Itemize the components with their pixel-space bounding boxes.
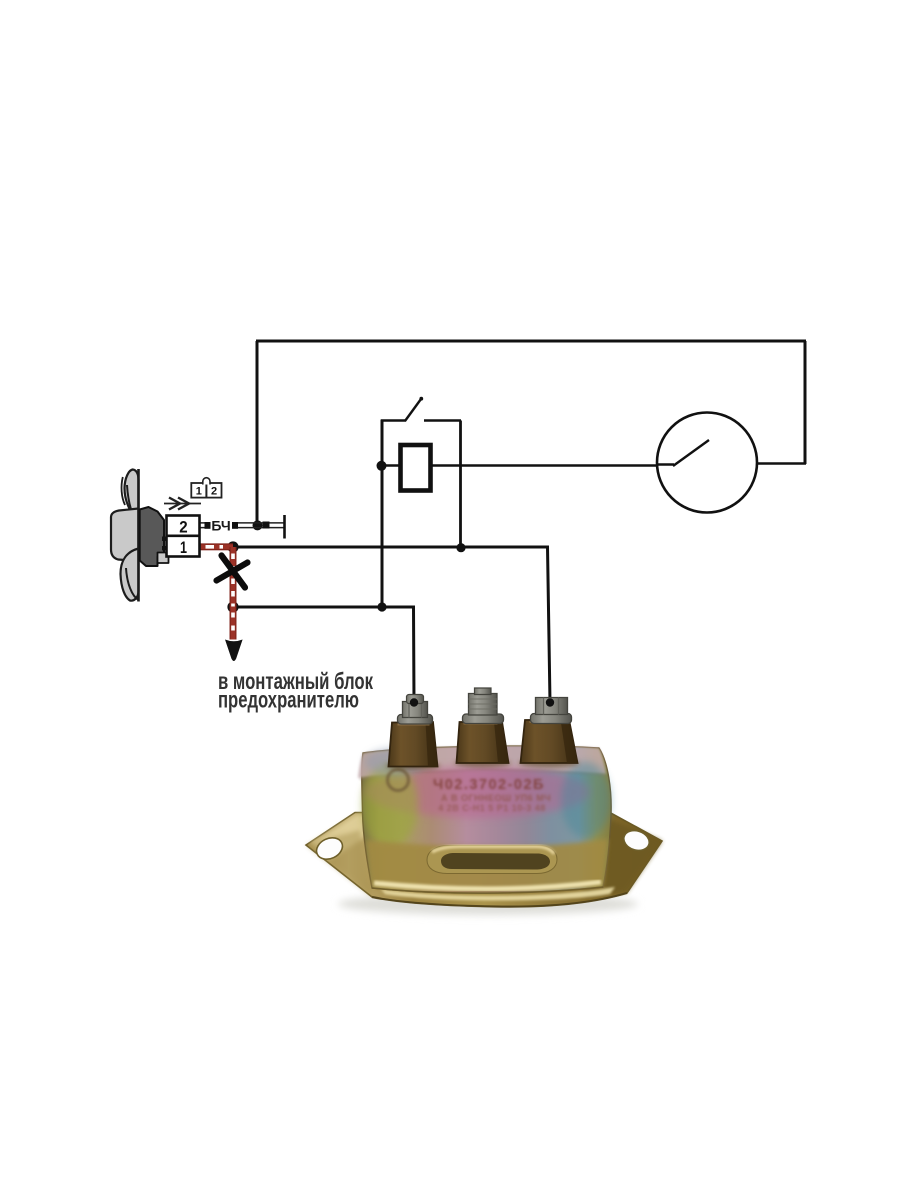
body lower brass band: [366, 839, 608, 893]
wire ignition switch right lead: [715, 462, 806, 465]
mounting hole left: [313, 834, 346, 864]
svg-text:1: 1: [196, 486, 202, 498]
red wire vertical to fuse box: [230, 547, 236, 640]
terminal block 2: [457, 722, 509, 764]
body top face band: [358, 746, 606, 778]
arrow to fuse box: [225, 640, 243, 662]
body bottom edge dark: [372, 887, 603, 893]
fan blade top: [125, 470, 139, 520]
wire relay left vertical: [381, 420, 384, 608]
body blue top-left tint: [365, 748, 425, 776]
oval slot outer: [427, 846, 557, 874]
node relay right bottom: [456, 543, 465, 552]
fan disc plate: [137, 469, 140, 602]
wire end dot terminal 1: [410, 698, 418, 706]
wire relay switch right stub: [424, 419, 461, 422]
BCh wire white lead from connector: [200, 523, 206, 528]
flange bottom highlight band: [380, 887, 615, 900]
node relay coil left: [377, 461, 387, 471]
wire relay switch left stub: [381, 419, 406, 422]
red wire horizontal from connector pin 1: [200, 544, 234, 550]
svg-text:2: 2: [179, 518, 187, 537]
terminal 3 washer: [531, 714, 572, 724]
wire end dot terminal 3: [546, 698, 554, 706]
wire lower row y=607 to left terminal: [233, 607, 414, 702]
fan blade top inner line: [127, 485, 139, 526]
motor step foot: [158, 553, 169, 564]
fan blade bottom: [121, 549, 139, 601]
body iridescent magenta center: [366, 766, 590, 818]
BCh wire end bar: [283, 515, 286, 539]
oval slot highlight top: [432, 847, 554, 855]
terminal 2 washer: [463, 714, 504, 724]
terminal 2 bolt: [469, 694, 498, 716]
terminal 1 washer: [398, 715, 433, 725]
svg-text:2: 2: [211, 486, 217, 498]
flange top-left highlight: [310, 814, 400, 860]
wire left vertical drop to BCh node: [256, 341, 259, 525]
connector face symbol 1|2: [191, 478, 221, 498]
terminal 3 nut: [536, 698, 568, 715]
mounting flange: [306, 813, 662, 907]
ignition switch left lead inside: [657, 463, 674, 466]
connector block on motor: [167, 516, 200, 557]
logo stamp: [388, 770, 409, 791]
ignition switch blade: [673, 440, 709, 466]
body green left tint: [362, 763, 418, 847]
node on BCh wire: [253, 520, 263, 530]
terminal block 1: [389, 722, 438, 767]
wire relay right vertical: [459, 421, 462, 549]
BCh wire double line: [238, 523, 285, 528]
node red wire lower: [227, 601, 238, 612]
wire top horizontal: [256, 340, 806, 343]
node relay left bottom: [377, 602, 386, 611]
svg-text:1: 1: [180, 538, 187, 557]
flange bottom dark rim: [372, 893, 627, 907]
X mark (disconnect): [217, 556, 248, 588]
body crease line: [360, 770, 605, 779]
wire relay coil row to ignition switch: [382, 464, 674, 467]
svg-text:БЧ: БЧ: [211, 518, 230, 534]
terminal 1 top cap: [407, 695, 424, 704]
block base shadows: [386, 762, 440, 771]
connector divider: [167, 534, 200, 537]
node red wire top: [227, 541, 238, 552]
terminal block 3: [521, 720, 578, 764]
flange right dark tip: [583, 812, 662, 897]
relay switch blade: [405, 399, 421, 421]
motor terminal stub 1: [162, 546, 167, 550]
svg-text:Ч02.3702-02Б: Ч02.3702-02Б: [433, 777, 545, 793]
svg-text:А В ОГННЕОШ УП6 МЧ: А В ОГННЕОШ УП6 МЧ: [441, 793, 551, 803]
fan blade bottom inner line: [126, 568, 139, 600]
fan blade middle-left: [111, 509, 139, 562]
device shadow: [338, 893, 638, 915]
body teal right tint: [561, 762, 611, 838]
fan blade top rear edge: [122, 477, 125, 505]
BCh wire marker square 3: [263, 522, 270, 529]
mounting hole right: [621, 827, 652, 853]
BCh wire marker square 1: [205, 522, 211, 529]
body bottom rim highlight: [374, 882, 601, 889]
BCh wire marker square 2: [232, 522, 238, 529]
motor terminal stub 2: [162, 537, 167, 541]
wire right vertical drop to ignition switch: [804, 341, 807, 464]
flange left wing crease: [306, 830, 372, 897]
body: [362, 746, 611, 893]
terminal 1 nut: [403, 702, 428, 718]
connector direction arrow: [164, 498, 201, 510]
oval slot dark opening: [441, 853, 550, 870]
relay K coil: [401, 445, 431, 491]
wire middle row y=547 to right terminal: [233, 547, 550, 702]
fan motor M1 group: [111, 469, 169, 602]
ignition switch circle: [657, 413, 757, 513]
svg-text:предохранителю: предохранителю: [218, 687, 359, 713]
motor body: [140, 507, 164, 566]
svg-text:4 2В С-Н1 5 Р1 10-3 48: 4 2В С-Н1 5 Р1 10-3 48: [438, 803, 546, 813]
